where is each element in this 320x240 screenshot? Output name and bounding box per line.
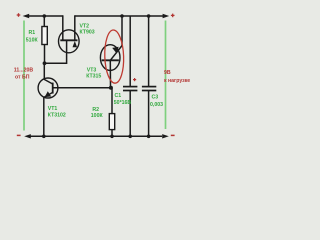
junction R2 rail bbox=[110, 135, 114, 139]
junction VT3 emitter rail bbox=[120, 14, 124, 18]
terminal plus top-right bbox=[171, 14, 175, 18]
capacitor C1 top plate bbox=[123, 86, 137, 88]
svg-text:VT1: VT1 bbox=[48, 106, 58, 112]
red highlight ellipse around VT3 bbox=[104, 30, 125, 84]
svg-text:КТ315: КТ315 bbox=[86, 74, 101, 80]
input arrow bottom-left bbox=[24, 134, 31, 138]
terminal plus top-left bbox=[17, 13, 21, 17]
svg-text:от БП: от БП bbox=[15, 74, 30, 80]
capacitor C3 bottom plate bbox=[142, 90, 156, 92]
wire R1 bottom lead bbox=[44, 45, 46, 64]
svg-text:VT2: VT2 bbox=[80, 24, 90, 30]
wire C3 top lead bbox=[148, 16, 150, 86]
output arrow bottom-right bbox=[162, 134, 169, 138]
svg-text:C1: C1 bbox=[115, 93, 122, 99]
wire node to VT1 collector bbox=[43, 63, 45, 79]
transistor VT2 emitter arrow bbox=[73, 41, 78, 47]
junction R1 top bbox=[43, 14, 47, 18]
wire R1 top lead bbox=[43, 16, 45, 27]
junction C3 bottom rail bbox=[147, 135, 151, 139]
transistor VT1 circle bbox=[38, 78, 58, 98]
svg-text:КТ903: КТ903 bbox=[80, 30, 95, 36]
wire VT3 base down to node bbox=[109, 60, 111, 88]
transistor VT3 circle bbox=[100, 45, 120, 71]
svg-text:R1: R1 bbox=[29, 30, 36, 36]
wire VT3 emitter to top rail bbox=[121, 16, 123, 46]
svg-text:C3: C3 bbox=[152, 95, 159, 101]
wire bottom rail bbox=[29, 135, 162, 137]
capacitor C3 top plate bbox=[142, 86, 156, 88]
svg-text:к нагрузке: к нагрузке bbox=[164, 78, 190, 84]
wire VT2 collector drop bbox=[62, 15, 64, 40]
terminal minus bottom-left bbox=[17, 134, 21, 136]
transistor VT1 emitter arrowhead bbox=[45, 91, 52, 97]
wire C1 bottom lead bbox=[129, 91, 131, 136]
polarity plus for C1 bbox=[133, 78, 136, 81]
green input marker line bbox=[23, 21, 25, 131]
transistor VT2 base bar bbox=[60, 39, 77, 41]
input arrow top-left bbox=[23, 14, 30, 18]
transistor VT2 circle bbox=[59, 30, 80, 53]
wire VT2 base to node bbox=[45, 40, 67, 63]
wire VT3 emitter diagonal bbox=[110, 46, 122, 61]
junction C3 rail bbox=[147, 14, 151, 18]
svg-text:0,003: 0,003 bbox=[150, 102, 163, 108]
svg-text:50*16В: 50*16В bbox=[114, 100, 132, 106]
wire C1 top lead bbox=[129, 16, 131, 86]
transistor VT3 base bar bbox=[102, 59, 119, 61]
wire R2 bottom lead bbox=[111, 130, 113, 137]
junction R1 bottom node bbox=[43, 61, 47, 65]
junction C1 rail bbox=[128, 135, 132, 139]
junction VT1 emitter rail bbox=[42, 135, 46, 139]
junction VT3 base node bbox=[109, 86, 113, 90]
wire VT1 base to node dot bbox=[53, 87, 111, 89]
svg-text:9В: 9В bbox=[164, 70, 171, 76]
green output marker line bbox=[165, 21, 167, 130]
wire VT2 emitter rise bbox=[74, 15, 76, 40]
terminal minus bottom-right bbox=[171, 134, 175, 136]
resistor R2 body bbox=[109, 114, 114, 130]
resistor R1 body bbox=[42, 27, 47, 45]
svg-text:КТ3102: КТ3102 bbox=[48, 112, 66, 118]
wire top rail left segment bbox=[28, 15, 63, 17]
svg-text:510К: 510К bbox=[26, 37, 39, 43]
transistor VT3 emitter arrowhead bbox=[112, 47, 119, 53]
wire R2 top lead bbox=[111, 88, 113, 114]
svg-text:11...20В: 11...20В bbox=[14, 67, 34, 73]
wire C3 bottom lead bbox=[148, 91, 150, 136]
svg-text:100К: 100К bbox=[91, 113, 104, 119]
capacitor C1 bottom plate bbox=[123, 90, 137, 92]
output arrow top-right bbox=[163, 14, 170, 18]
wire top rail right segment bbox=[75, 15, 164, 17]
wire VT1 emitter to bottom rail bbox=[43, 97, 45, 136]
transistor VT1 emitter diagonal bbox=[44, 92, 53, 97]
transistor VT1 collector diagonal bbox=[44, 79, 53, 84]
transistor VT1 base bar bbox=[52, 83, 54, 94]
